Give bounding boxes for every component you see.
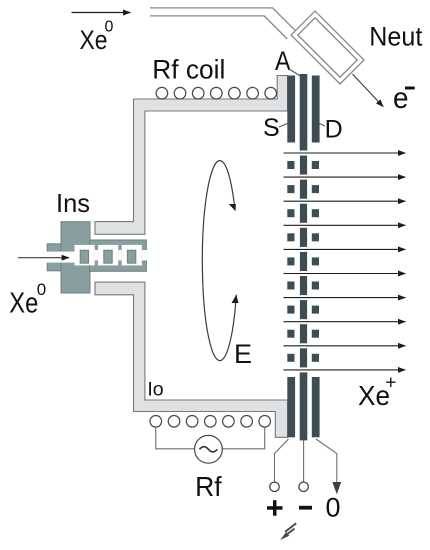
grid A accel solid top xyxy=(300,74,308,151)
svg-text:Rf coil: Rf coil xyxy=(152,54,225,84)
svg-text:+: + xyxy=(385,373,396,394)
svg-text:E: E xyxy=(234,339,252,369)
node Xe0 top label xyxy=(80,18,114,55)
wire A terminal lead xyxy=(303,441,305,483)
grid S aperture squares xyxy=(287,161,294,169)
terminal + circle xyxy=(270,482,279,491)
grid S screen solid top xyxy=(287,76,295,143)
wire D leader line xyxy=(320,124,326,127)
svg-text:Io: Io xyxy=(147,379,163,401)
chamber wall upper (top + upper-left + step) xyxy=(95,76,288,235)
inductor bottom Rf coil turns xyxy=(150,416,271,428)
injector INS body xyxy=(46,222,147,293)
node e- label xyxy=(393,82,415,115)
svg-text:0: 0 xyxy=(105,18,114,35)
grid aperture segments xyxy=(287,156,319,368)
node Xe+ label xyxy=(358,373,396,411)
wire S terminal lead xyxy=(275,439,289,482)
svg-text:Xe: Xe xyxy=(80,25,108,55)
svg-text:Rf: Rf xyxy=(195,471,222,502)
wire feed pipe to neutralizer xyxy=(150,8,295,39)
svg-text:0: 0 xyxy=(326,493,341,523)
injector baffle blocks xyxy=(80,250,136,263)
decorative double-arrow mark xyxy=(285,523,296,534)
inductor top Rf coil turns xyxy=(156,87,276,99)
wire D terminal lead to ground 0 xyxy=(316,439,337,482)
grid A solid bottom xyxy=(300,372,308,440)
svg-text:S: S xyxy=(263,114,280,142)
grid S solid bottom xyxy=(287,377,295,437)
wire top feed arrow (Xe0 inlet to neutralizer) xyxy=(72,12,131,14)
svg-text:0: 0 xyxy=(37,280,46,299)
grid D solid bottom xyxy=(312,377,320,437)
source U1 Rf generator xyxy=(195,435,223,463)
E-field circulation ellipse xyxy=(202,161,236,361)
grid D aperture squares xyxy=(312,161,319,169)
wire Rf generator leads xyxy=(156,427,265,449)
ground arrowhead xyxy=(332,482,341,494)
E-field top arrowhead xyxy=(229,203,238,212)
ion beam arrows Xe+ xyxy=(284,153,406,370)
svg-text:Xe: Xe xyxy=(9,288,38,320)
chamber wall lower (bottom + lower-left + step) xyxy=(95,282,288,437)
wire electron beam arrow e- xyxy=(353,74,384,107)
terminal - circle xyxy=(299,482,308,491)
svg-text:D: D xyxy=(325,115,343,143)
E-field bottom arrowhead xyxy=(231,294,239,304)
node Xe0 left label xyxy=(9,280,46,320)
wire S leader line xyxy=(279,123,289,127)
node - label xyxy=(299,506,312,510)
wire A leader line xyxy=(289,69,302,77)
grid A segments xyxy=(300,156,307,175)
grid D decel solid top xyxy=(312,76,320,143)
neutralizer NEUT (tilted tube) xyxy=(291,11,364,84)
node + label xyxy=(267,500,283,516)
svg-text:A: A xyxy=(275,46,291,76)
svg-text:Ins: Ins xyxy=(56,188,90,218)
injector channel cutouts xyxy=(46,245,147,266)
wire Xe0 inlet arrow xyxy=(18,257,69,259)
svg-text:Neut: Neut xyxy=(369,22,422,52)
